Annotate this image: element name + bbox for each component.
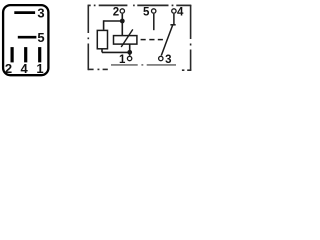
- wire resistor bottom stub: [101, 49, 103, 53]
- terminal 2 circle: [120, 9, 124, 13]
- terminal 5 circle: [152, 9, 156, 13]
- relay coil K1 body: [114, 36, 137, 45]
- svg-text:1: 1: [36, 61, 43, 76]
- svg-text:4: 4: [20, 61, 28, 76]
- wire from terminal 2 down to node A: [121, 14, 123, 21]
- terminal 3 circle: [159, 56, 163, 60]
- wire from terminal 4 down to NC contact: [173, 14, 175, 25]
- pin slot 3: [14, 11, 35, 14]
- coil K1 diagonal stroke: [121, 29, 133, 47]
- mechanical linkage (dashed) from coil to switch arm: [141, 39, 163, 41]
- svg-text:5: 5: [143, 7, 150, 19]
- boundary box right edge (dash-dot): [190, 5, 192, 71]
- wire down to resistor R1: [103, 20, 105, 30]
- boundary box top edge (dash-dot): [88, 4, 191, 6]
- pin slot 4: [24, 47, 27, 62]
- wire node A down to coil K1: [121, 21, 123, 35]
- wire node A left: [104, 20, 123, 22]
- svg-text:5: 5: [37, 30, 44, 45]
- svg-text:3: 3: [37, 5, 44, 20]
- boundary box bottom edge (dash-dot, interrupted): [88, 68, 191, 71]
- case ground line under terminals 1 and 3 (dash-dot): [111, 64, 176, 66]
- svg-text:2: 2: [5, 61, 12, 76]
- wire bottom rail to node B: [102, 51, 130, 53]
- pin slot 1: [38, 47, 41, 62]
- wire from terminal 5 down (NO contact): [153, 14, 155, 30]
- svg-text:3: 3: [165, 54, 171, 66]
- pin slot 5: [18, 36, 37, 39]
- terminal 1 circle: [127, 56, 131, 60]
- wire node B to terminal 1: [129, 52, 131, 55]
- terminal 4 circle: [172, 9, 176, 13]
- relay base outline: [3, 5, 48, 75]
- node B junction dot: [127, 50, 132, 55]
- wire coil K1 bottom to node B: [129, 44, 131, 52]
- switch arm (common 3 to NC 4): [161, 25, 172, 55]
- node A junction dot: [120, 19, 125, 24]
- svg-text:4: 4: [177, 7, 184, 19]
- svg-text:1: 1: [119, 54, 126, 66]
- NC contact tick: [170, 24, 175, 26]
- resistor R1: [97, 30, 107, 48]
- boundary box left edge (dash-dot): [87, 5, 89, 71]
- svg-text:2: 2: [113, 7, 119, 19]
- pin slot 2: [11, 47, 14, 62]
